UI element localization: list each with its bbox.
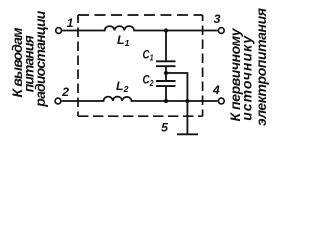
terminal 3 — [218, 28, 224, 34]
node: junction C2 on bottom wire — [164, 99, 168, 103]
wire: lead C1 to mid node — [165, 66, 167, 81]
node: junction ground tap on bottom wire — [185, 99, 189, 103]
node: mid junction between C1 and C2 — [164, 71, 168, 75]
svg-text:5: 5 — [161, 121, 168, 135]
svg-text:источнику: источнику — [239, 35, 255, 121]
terminal 1 — [56, 28, 62, 34]
node: junction on top wire — [164, 28, 168, 32]
wire: ground tap from mid node — [166, 73, 187, 101]
svg-text:2: 2 — [61, 85, 69, 99]
wire: ground lead through box — [186, 101, 188, 134]
right label: К первичному источнику электропитания — [227, 8, 269, 126]
wire: top line 1-3 with inductor L1 — [62, 26, 218, 30]
terminal 2 — [55, 98, 61, 104]
svg-text:1: 1 — [67, 16, 74, 30]
left label: К выводам питания радиостанции — [9, 10, 48, 107]
wire: bottom line 2-4 with inductor L2 — [62, 97, 218, 101]
capacitor C2 — [156, 81, 176, 86]
ground terminal 5 bar — [177, 133, 198, 135]
svg-text:электропитания: электропитания — [253, 8, 269, 126]
wire: C1 top lead — [165, 31, 167, 62]
svg-text:3: 3 — [214, 12, 221, 26]
terminal 4 — [218, 98, 224, 104]
wire: C2 bottom lead — [165, 86, 167, 101]
svg-text:4: 4 — [212, 83, 220, 97]
capacitor C1 — [156, 61, 176, 66]
dashed enclosure box — [78, 15, 203, 116]
svg-text:радиостанции: радиостанции — [32, 10, 48, 107]
